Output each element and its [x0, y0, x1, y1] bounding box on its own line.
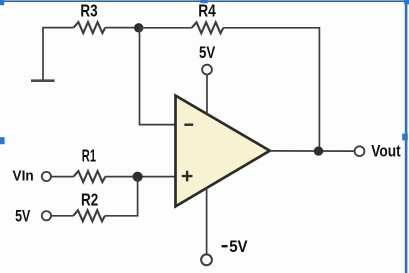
resistor R3	[74, 22, 106, 33]
svg-text:VIn: VIn	[13, 168, 34, 184]
terminal Vin	[42, 172, 51, 181]
resistor R4	[192, 22, 224, 33]
terminal 5V top	[202, 65, 212, 75]
selection handle right-middle	[402, 134, 408, 141]
svg-text:R2: R2	[81, 190, 98, 210]
wire: R4 feedback to output node	[223, 28, 319, 151]
svg-text:R1: R1	[82, 146, 96, 166]
resistor R1	[74, 171, 106, 182]
selection handle top-left	[0, 0, 4, 5]
svg-text:5V: 5V	[229, 238, 248, 256]
label -5V	[222, 238, 248, 256]
wire: node A down to inverting input	[140, 28, 176, 125]
selection handle top-right	[404, 0, 409, 4]
svg-text:5V: 5V	[199, 44, 215, 62]
wire: ground up and over to R3	[43, 28, 74, 81]
terminal Vout	[355, 146, 365, 156]
svg-text:R4: R4	[198, 1, 216, 21]
node B (junction dot)	[133, 172, 143, 182]
selection border right	[405, 0, 408, 273]
node A (junction dot)	[134, 23, 143, 32]
op-amp U1	[176, 96, 270, 207]
wire: R2 up to node B	[105, 177, 138, 216]
wire: R1 to non-inverting input	[105, 176, 175, 178]
selection handle left-middle	[0, 137, 5, 144]
terminal 5V left	[42, 211, 51, 220]
wire: Vin to R1	[51, 176, 73, 178]
wire: node A to R4	[139, 27, 192, 29]
resistor R2	[73, 210, 105, 221]
wire: 5V to R2	[51, 215, 73, 217]
wire: op-amp to -5V supply	[206, 188, 208, 255]
terminal -5V	[201, 254, 212, 265]
node C (output junction dot)	[314, 146, 323, 155]
svg-text:Vout: Vout	[371, 142, 401, 161]
selection handle top-center	[200, 0, 207, 3]
wire: op-amp output to Vout	[270, 150, 354, 152]
svg-text:R3: R3	[80, 1, 97, 21]
wire: R3 to node A	[105, 27, 139, 29]
ground	[31, 79, 55, 82]
selection border top	[0, 0, 406, 2]
wire: 5V supply to op-amp	[206, 75, 208, 115]
svg-text:5V: 5V	[15, 207, 31, 226]
